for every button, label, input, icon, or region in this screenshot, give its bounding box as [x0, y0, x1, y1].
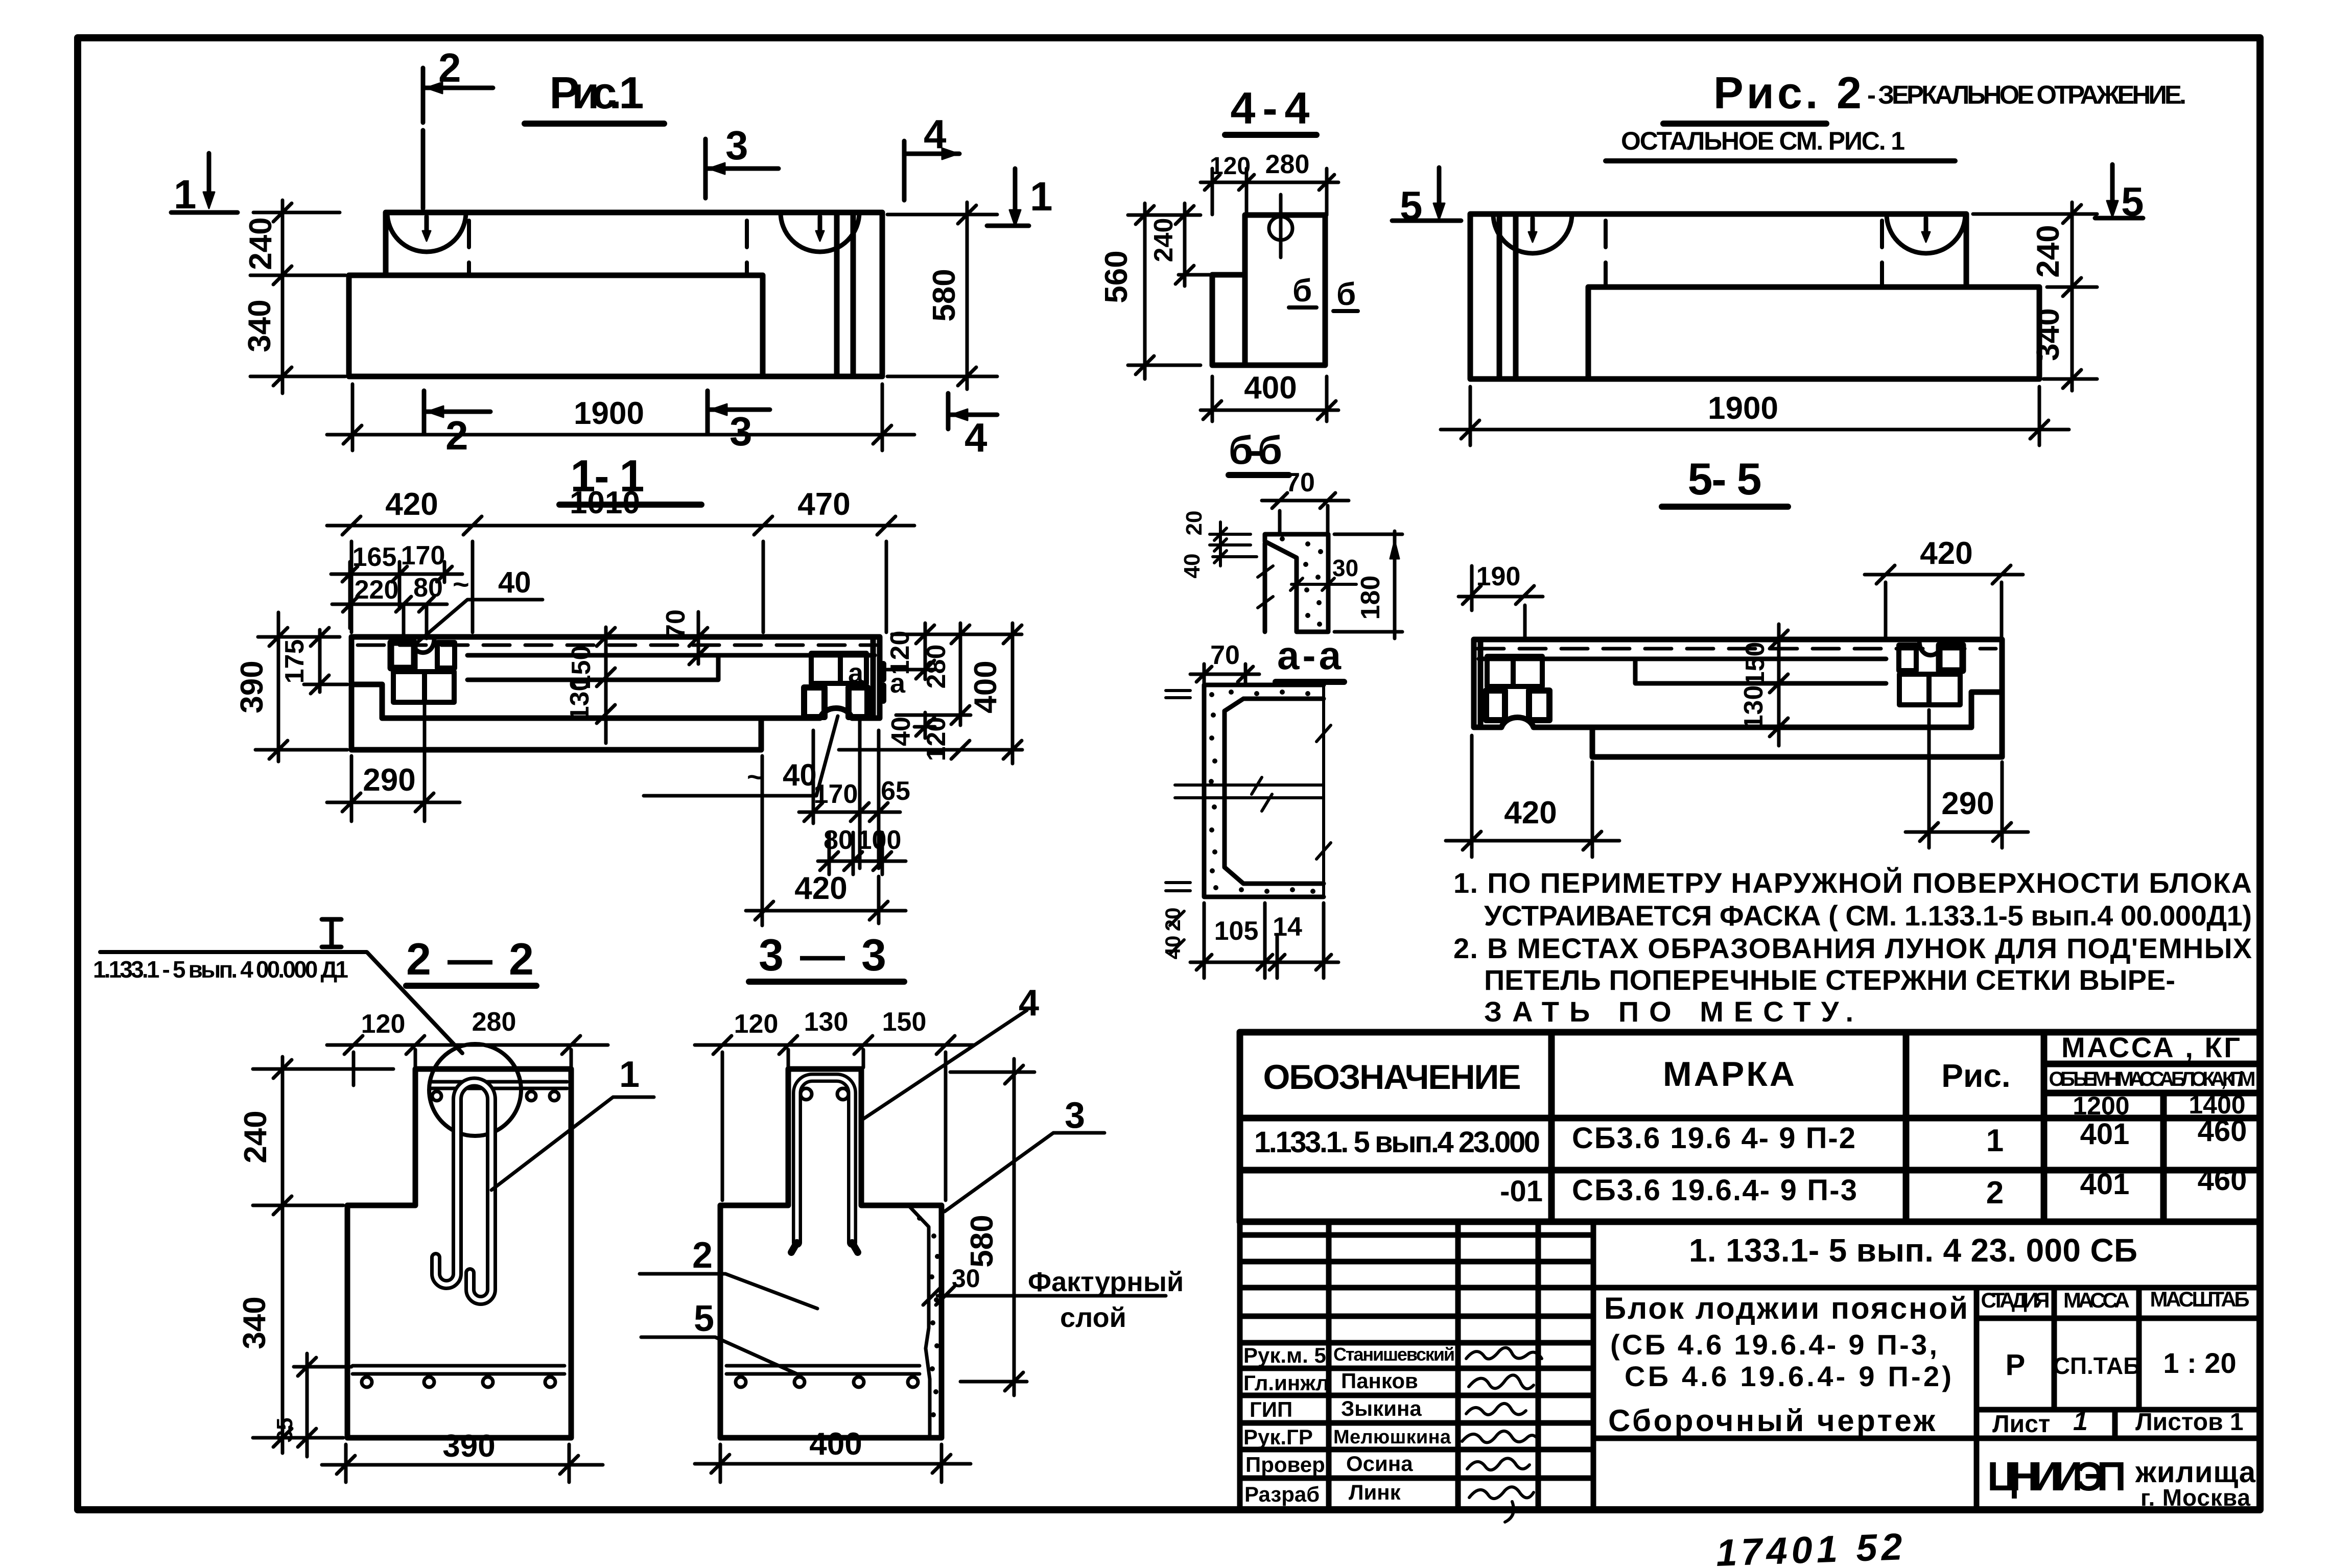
fig1 block outline	[349, 212, 882, 376]
svg-text:2 — 2: 2 — 2	[406, 934, 534, 984]
svg-text:240: 240	[243, 217, 278, 270]
svg-text:400: 400	[809, 1427, 862, 1462]
sec2-2 bottom mesh	[352, 1366, 564, 1387]
svg-text:1900: 1900	[1708, 391, 1778, 426]
svg-text:340: 340	[237, 1296, 272, 1349]
a-a left small marks	[1166, 691, 1190, 891]
svg-text:130: 130	[804, 1007, 849, 1037]
svg-text:5- 5: 5- 5	[1688, 454, 1762, 504]
a-a stipple	[1209, 690, 1315, 894]
svg-text:4 - 4: 4 - 4	[1231, 83, 1310, 133]
svg-text:180: 180	[1356, 576, 1385, 620]
svg-text:240: 240	[2031, 225, 2066, 277]
a-a mid break lines	[1175, 777, 1324, 811]
fig1 section mark 3 top	[705, 123, 779, 198]
svg-text:40: 40	[1180, 554, 1205, 579]
b-b dim 180	[1334, 531, 1402, 638]
sec1-1 dims 80/100	[818, 825, 906, 874]
sec5-5 dims 150/130 mid	[1739, 624, 1788, 746]
svg-text:401: 401	[2080, 1168, 2130, 1201]
sec3-3 leader 3	[945, 1095, 1104, 1211]
svg-text:СБ3.6 19.6.4- 9 П-3: СБ3.6 19.6.4- 9 П-3	[1572, 1174, 1857, 1207]
fig1 hidden dashed lines	[469, 221, 747, 273]
svg-text:120: 120	[1210, 153, 1251, 180]
signature table grid	[1240, 1235, 1593, 1478]
sec1-1 dim 420 bottom	[746, 756, 906, 925]
svg-text:420: 420	[1920, 536, 1972, 571]
svg-text:70: 70	[661, 609, 691, 639]
svg-text:20: 20	[1161, 908, 1185, 932]
sec5-5 dim 290 bottom right	[1905, 710, 2028, 848]
fig1 title	[525, 67, 664, 124]
sec3-3 leader 2	[640, 1235, 817, 1309]
svg-text:80: 80	[824, 825, 853, 855]
svg-text:150: 150	[882, 1007, 927, 1037]
svg-text:401: 401	[2080, 1118, 2130, 1151]
svg-text:340: 340	[2031, 308, 2066, 361]
svg-text:240: 240	[1149, 218, 1179, 263]
svg-text:65: 65	[881, 776, 910, 806]
svg-text:1: 1	[1030, 174, 1053, 219]
svg-text:4: 4	[1019, 983, 1039, 1024]
fig1 section mark 4 top	[904, 111, 959, 200]
table grid	[1240, 1032, 2260, 1222]
svg-text:б: б	[1292, 273, 1312, 308]
a-a break slashes on right edge	[1316, 725, 1331, 859]
svg-text:ПЕТЕЛЬ ПОПЕРЕЧНЫЕ СТЕРЖНИ СЕ: ПЕТЕЛЬ ПОПЕРЕЧНЫЕ СТЕРЖНИ СЕТКИ ВЫРЕ-	[1484, 964, 2179, 996]
svg-text:165: 165	[352, 542, 397, 572]
svg-text:1900: 1900	[574, 396, 644, 431]
svg-text:2: 2	[1986, 1175, 2004, 1210]
detail circle	[429, 1044, 521, 1136]
svg-text:УСТРАИВАЕТСЯ ФАСКА ( СМ. 1.13: УСТРАИВАЕТСЯ ФАСКА ( СМ. 1.133.1-5 вып.4…	[1484, 899, 2255, 932]
fig2 dim 1900 bottom	[1441, 387, 2069, 445]
svg-text:170: 170	[814, 779, 858, 809]
svg-text:МАРКА: МАРКА	[1663, 1055, 1795, 1094]
svg-text:2. В МЕСТАХ ОБРАЗОВАНИЯ ЛУНО: 2. В МЕСТАХ ОБРАЗОВАНИЯ ЛУНОК ДЛЯ ПОД'ЕМ…	[1453, 932, 2255, 964]
b-b dim 70	[1262, 468, 1349, 534]
svg-text:Фактурный: Фактурный	[1028, 1267, 1184, 1297]
svg-text:2: 2	[692, 1235, 713, 1276]
sec2-2 title	[406, 934, 536, 986]
svg-text:460: 460	[2198, 1114, 2247, 1148]
svg-text:100: 100	[857, 825, 902, 855]
b-b break marks	[1258, 566, 1273, 608]
fig1 section mark 1 right	[987, 169, 1053, 226]
sec5-5 left small slots	[1486, 691, 1549, 720]
svg-text:220: 220	[355, 575, 399, 605]
svg-text:1. ПО ПЕРИМЕТРУ НАРУЖНОЙ ПО: 1. ПО ПЕРИМЕТРУ НАРУЖНОЙ ПОВЕРХНОСТИ БЛО…	[1453, 867, 2255, 899]
svg-text:40: 40	[886, 717, 916, 746]
sec2-2 top mesh	[431, 1082, 567, 1101]
svg-text:ОСТАЛЬНОЕ СМ. РИС. 1: ОСТАЛЬНОЕ СМ. РИС. 1	[1621, 127, 1905, 155]
svg-text:МАССА , КГ: МАССА , КГ	[2061, 1031, 2240, 1063]
sec3-3 leader 5	[641, 1298, 797, 1374]
svg-text:5: 5	[694, 1298, 714, 1339]
svg-text:слой: слой	[1060, 1302, 1126, 1333]
fig1 section mark 4 bottom	[948, 393, 997, 460]
sec1-1 dims 165/170	[331, 541, 462, 628]
svg-text:4: 4	[924, 111, 947, 157]
svg-text:120: 120	[361, 1009, 406, 1039]
sec5-5 inner band lines	[1479, 659, 1886, 683]
svg-text:30: 30	[1332, 555, 1358, 581]
svg-text:175: 175	[280, 639, 310, 684]
sec2-2 lifting loop bar	[436, 1082, 491, 1301]
sec1-1 dim 290 bottom left	[327, 705, 460, 821]
sec5-5 right pocket	[1899, 674, 1960, 705]
sec5-5 loop hole	[1919, 641, 1942, 655]
sec3-3 facing layer	[910, 1207, 940, 1435]
fig2 subtitle	[1606, 127, 1955, 161]
sec1-1 outline	[351, 637, 880, 750]
svg-text:70: 70	[1210, 640, 1240, 670]
svg-text:120: 120	[885, 631, 915, 675]
section title a-a	[1276, 633, 1344, 682]
svg-text:420: 420	[794, 871, 847, 906]
svg-text:400: 400	[968, 660, 1003, 713]
svg-text:130: 130	[565, 677, 595, 721]
svg-text:Мелюшкина: Мелюшкина	[1333, 1427, 1451, 1448]
svg-text:420: 420	[385, 487, 438, 522]
fig1 section mark 2 top	[423, 45, 493, 208]
svg-text:Лист: Лист	[1992, 1411, 2050, 1438]
svg-text:СТАДИЯ: СТАДИЯ	[1981, 1288, 2050, 1312]
svg-text:280: 280	[922, 645, 951, 689]
sec3-3 dim 400 bottom	[695, 1427, 971, 1482]
svg-text:Сборочный чертеж: Сборочный чертеж	[1608, 1404, 1936, 1438]
svg-text:40: 40	[1161, 936, 1185, 960]
svg-text:20: 20	[1182, 511, 1207, 536]
sec1-1 left slot 2	[437, 643, 455, 668]
sec4-4 dim 400 bottom	[1201, 370, 1338, 421]
svg-text:Гл.инжл: Гл.инжл	[1243, 1371, 1329, 1395]
svg-text:Рис. 2: Рис. 2	[1713, 67, 1862, 118]
svg-text:2: 2	[438, 45, 461, 90]
svg-text:1: 1	[1986, 1123, 2004, 1158]
svg-text:б: б	[1336, 277, 1356, 312]
svg-text:470: 470	[797, 487, 850, 522]
svg-text:580: 580	[964, 1215, 1000, 1267]
sec5-5 outline	[1474, 639, 2002, 757]
sec2-2 dims 120/280 top	[327, 1007, 608, 1085]
detail label 1.133.1-5 vyp.4 00.000 D1	[93, 952, 462, 1053]
fig2 section mark 5 left	[1392, 168, 1461, 228]
svg-text:-01: -01	[1500, 1175, 1543, 1208]
svg-text:390: 390	[442, 1429, 495, 1464]
sec2-2 body outline	[347, 1069, 571, 1438]
sec1-1 right slot pair	[811, 653, 866, 683]
svg-text:1200: 1200	[2073, 1091, 2129, 1120]
svg-text:СБ3.6 19.6 4- 9 П-2: СБ3.6 19.6 4- 9 П-2	[1572, 1122, 1855, 1155]
svg-text:290: 290	[1941, 786, 1994, 821]
svg-text:130: 130	[1739, 685, 1769, 730]
sec1-1 dims 150/130 mid	[565, 627, 615, 743]
svg-text:280: 280	[472, 1007, 516, 1037]
svg-text:2: 2	[445, 413, 468, 458]
sec5-5 right slot 1	[1939, 645, 1963, 671]
svg-text:а: а	[848, 658, 864, 688]
svg-text:ОБЪЕМН.МАССА БЛОКА,КГ/М: ОБЪЕМН.МАССА БЛОКА,КГ/М	[2049, 1068, 2256, 1090]
sec1-1 dims 170/65	[799, 719, 910, 868]
svg-text:3: 3	[730, 409, 752, 454]
sec1-1 dashed axis	[358, 644, 876, 647]
svg-text:ГИП: ГИП	[1250, 1397, 1292, 1421]
svg-text:Рис.: Рис.	[1941, 1057, 2010, 1094]
section title 1-1	[559, 450, 701, 505]
fig1 section mark 2 bottom	[424, 391, 490, 458]
sec1-1 right dim 400	[968, 623, 1022, 764]
svg-text:460: 460	[2198, 1163, 2247, 1197]
fig2 hidden dashed lines	[1606, 221, 1882, 284]
sec3-3 leader 4	[862, 983, 1039, 1120]
svg-text:Панков: Панков	[1341, 1369, 1418, 1393]
svg-text:СБ 4.6 19.6.4- 9 П-2): СБ 4.6 19.6.4- 9 П-2)	[1625, 1360, 1951, 1392]
sec4-4 dim 240 left	[1149, 203, 1224, 286]
svg-text:390: 390	[234, 660, 270, 713]
sec4-4 body	[1212, 215, 1325, 365]
fig2 block outline	[1470, 214, 2039, 379]
fig1 dim 580 right	[887, 202, 997, 389]
svg-text:Разраб: Разраб	[1244, 1482, 1320, 1506]
svg-text:МАСШТАБ: МАСШТАБ	[2150, 1287, 2250, 1311]
fig1 lifting loop left	[387, 212, 466, 252]
sec2-2 dim 390 bottom	[322, 1429, 603, 1482]
fig1 section mark 1 left	[171, 153, 238, 217]
fig1 dim 1900 bottom	[327, 384, 914, 450]
sec4-4 title	[1225, 83, 1316, 135]
svg-text:Станишевский: Станишевский	[1333, 1344, 1455, 1365]
sec4-4 dims 120/280 top	[1201, 150, 1338, 215]
svg-text:560: 560	[1099, 250, 1134, 303]
sec4-4 dim 560 left	[1099, 203, 1201, 379]
svg-text:1: 1	[619, 1054, 640, 1095]
svg-text:Блок лоджии поясной: Блок лоджии поясной	[1604, 1291, 1968, 1325]
svg-text:105: 105	[1214, 916, 1259, 946]
fig2 title	[1663, 67, 2186, 124]
svg-text:170: 170	[401, 541, 445, 571]
section title b-b	[1229, 427, 1289, 475]
sec1-1 loop hole	[412, 638, 434, 653]
sec1-1 left slot 1	[391, 643, 414, 668]
svg-text:580: 580	[927, 269, 962, 321]
svg-text:ЗАТЬ ПО МЕСТУ.: ЗАТЬ ПО МЕСТУ.	[1484, 995, 1857, 1028]
sec3-3 longitudinal bars	[801, 1088, 849, 1100]
sec1-1 dim 70	[661, 609, 708, 664]
fig2 lifting loop right	[1887, 214, 1965, 253]
svg-text:Рис. 1: Рис. 1	[550, 67, 644, 118]
sec3-3 dim 580 right	[950, 1059, 1034, 1395]
sec1-1 right dims 40/120 lower	[839, 712, 1022, 761]
detail mark I	[322, 919, 341, 947]
svg-text:80: 80	[413, 573, 443, 603]
sec5-5 dim 420 top	[1865, 536, 2023, 638]
svg-text:(СБ 4.6 19.6.4- 9 П-3,: (СБ 4.6 19.6.4- 9 П-3,	[1610, 1328, 1937, 1361]
a-a dim 70	[1190, 640, 1259, 685]
svg-text:1: 1	[174, 172, 197, 217]
svg-text:280: 280	[1265, 150, 1310, 179]
signatures scribbles	[1462, 1348, 1542, 1522]
svg-text:30: 30	[952, 1264, 980, 1293]
sec5-5 dim 190 top	[1458, 562, 1543, 638]
svg-text:1. 133.1- 5 вып. 4 23. 000: 1. 133.1- 5 вып. 4 23. 000 СБ	[1689, 1232, 2137, 1269]
label Fakturny sloy	[1028, 1267, 1184, 1333]
b-b stipple	[1280, 536, 1323, 627]
svg-text:г. Москва: г. Москва	[2140, 1484, 2250, 1511]
fig2 section mark 5 right	[2095, 164, 2144, 224]
svg-text:120: 120	[922, 717, 951, 762]
sec2-2 leader 1	[491, 1054, 654, 1190]
sec5-5 dim 420 bottom left	[1446, 735, 1619, 857]
sec1-1 chamfer label 40 top	[415, 566, 543, 645]
svg-text:1.133.1 - 5 вып. 4 00.000 Д1: 1.133.1 - 5 вып. 4 00.000 Д1	[93, 956, 348, 983]
svg-text:70: 70	[1285, 468, 1315, 497]
svg-text:190: 190	[1476, 562, 1521, 591]
svg-text:Провер: Провер	[1245, 1453, 1325, 1477]
a-a dims 20/40 left bottom	[1161, 908, 1185, 960]
sec3-3 dims 120/130/150 top	[695, 1007, 973, 1200]
svg-text:3: 3	[1065, 1095, 1085, 1136]
sec3-3 title	[749, 930, 904, 982]
sec4-4 loop mark	[1269, 195, 1292, 257]
sec1-1 left pocket	[393, 672, 454, 702]
svg-text:40: 40	[498, 566, 531, 599]
svg-text:3 — 3: 3 — 3	[759, 930, 886, 980]
svg-text:Рук.ГР: Рук.ГР	[1243, 1425, 1313, 1449]
a-a profile outline	[1204, 685, 1324, 897]
sec1-1 inner band lines	[467, 655, 875, 680]
svg-text:Рук.м. 5: Рук.м. 5	[1243, 1343, 1326, 1367]
svg-text:120: 120	[734, 1009, 779, 1039]
sec1-1 dim 175 left	[280, 628, 347, 694]
svg-text:а - а: а - а	[1277, 633, 1342, 678]
svg-text:Зыкина: Зыкина	[1341, 1396, 1422, 1420]
svg-text:17401 52: 17401 52	[1715, 1525, 1907, 1568]
svg-text:400: 400	[1244, 370, 1297, 406]
b-b dim 30	[1290, 555, 1358, 590]
sec2-2 dim 240 left	[238, 1057, 393, 1221]
svg-text:МАССА: МАССА	[2063, 1288, 2130, 1312]
svg-text:5: 5	[1400, 183, 1423, 228]
sec5-5 left slot pair	[1487, 656, 1542, 686]
sec3-3 bottom mesh	[726, 1366, 920, 1387]
sec3-3 body outline	[720, 1069, 942, 1438]
svg-text:Осина: Осина	[1346, 1452, 1413, 1476]
b-b profile outline	[1265, 534, 1328, 632]
svg-text:- ЗЕРКАЛЬНОЕ ОТРАЖЕНИЕ.: - ЗЕРКАЛЬНОЕ ОТРАЖЕНИЕ.	[1867, 80, 2186, 109]
svg-text:Р: Р	[2006, 1348, 2026, 1382]
sec1-1 a-a cut marks	[848, 658, 906, 701]
sec2-2 dim 35	[272, 1353, 351, 1457]
svg-text:1 : 20: 1 : 20	[2163, 1347, 2236, 1379]
a-a dims 105/14 bottom	[1190, 903, 1338, 978]
sec4-4 b-b cut labels	[1289, 273, 1358, 312]
svg-text:~: ~	[453, 568, 469, 600]
sec1-1 right dims 120/280	[885, 623, 1022, 725]
sec1-1 right small slots	[804, 687, 867, 717]
sec5-5 right slot 2	[1899, 645, 1916, 671]
sec1-1 dim 390 left	[234, 612, 347, 762]
sec3-3 facing label 30	[923, 1264, 1166, 1305]
svg-text:СП.ТАБ: СП.ТАБ	[2053, 1352, 2140, 1379]
fig1 dim 240/340 left	[242, 200, 345, 393]
sec5-5 dashed axis	[1477, 647, 1996, 651]
svg-text:б-б: б-б	[1229, 427, 1282, 472]
fig2 lifting loop left	[1493, 214, 1572, 253]
svg-text:3: 3	[725, 123, 748, 168]
section title 5-5	[1662, 454, 1788, 507]
svg-text:ЦНИИЭП: ЦНИИЭП	[1987, 1454, 2126, 1499]
svg-text:150: 150	[1740, 642, 1770, 686]
svg-text:1.133.1. 5 вып.4 23.000: 1.133.1. 5 вып.4 23.000	[1254, 1126, 1540, 1159]
svg-text:Линк: Линк	[1349, 1480, 1401, 1504]
sec2-2 dim 340 left	[237, 1221, 343, 1453]
svg-text:ОБОЗНАЧЕНИЕ: ОБОЗНАЧЕНИЕ	[1263, 1058, 1521, 1097]
svg-text:35: 35	[272, 1418, 297, 1443]
fig2 dims 240/340 right	[1973, 202, 2097, 391]
sec1-1 chamfer label 40 bottom	[644, 716, 838, 796]
svg-text:420: 420	[1504, 795, 1557, 830]
fig1 section mark 3 bottom	[708, 391, 770, 454]
svg-text:Листов 1: Листов 1	[2135, 1409, 2244, 1436]
svg-text:1010: 1010	[570, 485, 640, 520]
svg-text:4: 4	[964, 415, 987, 460]
svg-text:290: 290	[363, 763, 415, 798]
svg-text:14: 14	[1273, 912, 1302, 942]
svg-text:5: 5	[2121, 179, 2144, 224]
sec1-1 dims 220/80	[332, 573, 447, 638]
svg-text:240: 240	[238, 1110, 273, 1163]
sec1-1 top dims 420/1010/470	[327, 485, 914, 632]
svg-text:1: 1	[2073, 1407, 2088, 1436]
sec3-3 stirrup	[791, 1078, 858, 1252]
signature table names	[1243, 1343, 1455, 1506]
b-b dims 20/40 left	[1180, 511, 1257, 579]
fig1 lifting loop right	[781, 212, 859, 252]
title block partitions	[1593, 1288, 2260, 1510]
svg-text:340: 340	[242, 299, 277, 352]
